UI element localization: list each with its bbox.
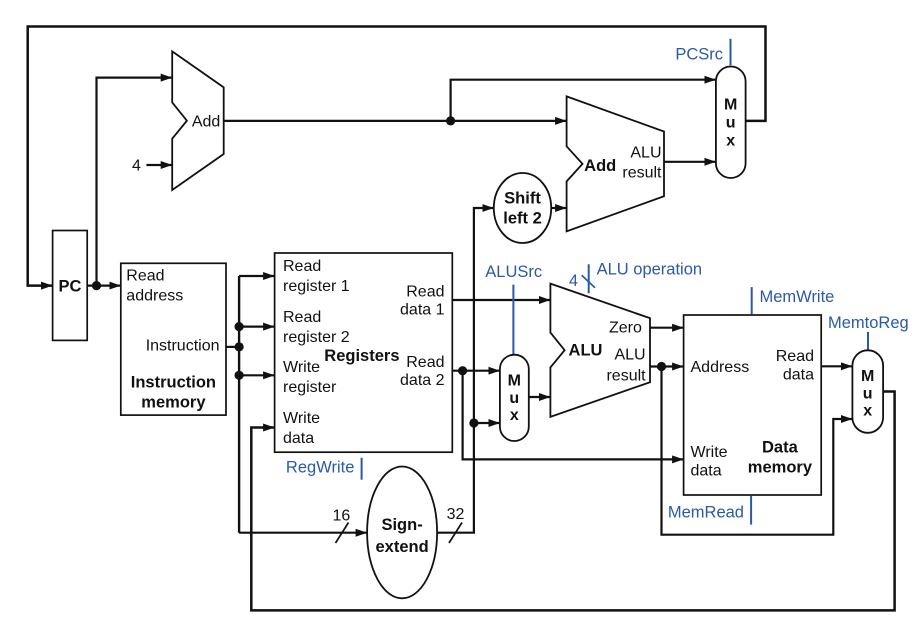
svg-text:x: x [510,407,519,424]
wire: ALU result branch under data memory to MemtoReg mux bottom input [662,367,852,535]
wire: Read data 1 to ALU top input [452,299,550,301]
control line PCSrc [730,39,732,66]
svg-text:MemtoReg: MemtoReg [828,314,909,332]
register PC [53,231,88,341]
wire: ALU Zero output [650,327,683,329]
svg-text:Write: Write [283,410,320,427]
junction dot on Add output [446,116,455,125]
junction dot instruction bus branch write register [235,371,244,380]
wire: branch up from Add output to PCSrc mux top input [451,80,716,121]
ALU U1 [550,284,650,417]
svg-text:Read: Read [406,354,444,371]
svg-text:Sign-: Sign- [381,516,422,534]
junction dot instruction bus at instruction output [235,342,244,351]
wire: Read data 2 to ALUSrc mux top input [452,370,499,372]
svg-text:data 1: data 1 [400,302,445,319]
svg-text:Read: Read [126,267,164,284]
junction dot ALU result branch [657,362,666,371]
svg-text:data: data [283,430,314,447]
wire: Sign-extend output right then up to Shift left 2 [437,208,493,533]
mux ALUSrc [500,355,529,441]
svg-text:16: 16 [333,508,351,525]
svg-text:M: M [861,368,874,385]
junction dot read data 2 branch [458,366,467,375]
svg-text:MemRead: MemRead [668,504,744,522]
junction dot sign-extend branch to ALUSrc mux [469,418,478,427]
control line ALUSrc [512,285,514,354]
wire: instruction bus to Write register [239,374,274,376]
svg-text:x: x [863,403,872,420]
svg-text:memory: memory [748,459,813,477]
svg-text:ALU: ALU [630,145,661,162]
svg-text:result: result [622,165,662,182]
svg-text:register: register [283,379,337,396]
adder Add (PC+4) [172,51,224,190]
svg-text:PC: PC [58,278,81,296]
svg-text:Data: Data [762,439,799,457]
mux PCSrc [716,67,746,179]
control line MemRead [750,496,752,525]
svg-text:RegWrite: RegWrite [286,458,354,476]
svg-text:Shift: Shift [504,190,541,208]
svg-text:MemWrite: MemWrite [760,288,835,306]
wire: Data memory Read data to MemtoReg mux top input [821,365,852,367]
svg-text:extend: extend [376,538,429,556]
wire: PC feedback loop from PCSrc mux output over the top to PC input [28,27,766,286]
svg-text:Read: Read [406,284,444,301]
svg-text:address: address [126,288,183,305]
svg-text:register 2: register 2 [283,329,350,346]
wire: MemtoReg mux output return to Registers Write data [251,392,894,611]
sign-extend ellipse [367,467,437,599]
wire: instruction bus to Read register 2 [239,326,274,328]
wire: instruction bus vertical [238,276,240,533]
wire: instruction bus down to Sign-extend input [239,532,367,534]
svg-text:Read: Read [776,348,814,365]
wire: ALUSrc mux output to ALU bottom input [529,396,550,398]
wire: sign-extend branch to ALUSrc mux bottom input [474,422,500,424]
wire: read data 2 branch down to Data memory Write data [463,371,683,460]
data memory box [684,315,822,495]
svg-text:Write: Write [691,444,728,461]
svg-text:Address: Address [691,359,750,376]
svg-text:Zero: Zero [609,320,642,337]
bus width slash on ALU operation [582,275,595,288]
wire: PC output branch up to Add input [97,78,172,286]
svg-text:4: 4 [132,158,141,175]
wire: Add ALU result output to PCSrc mux bottom input [664,161,715,163]
svg-text:u: u [863,386,873,403]
svg-text:data 2: data 2 [400,372,445,389]
shift left 2 ellipse [494,173,551,243]
svg-text:x: x [726,133,735,150]
registers box [275,253,453,452]
svg-text:u: u [726,115,736,132]
svg-text:data: data [783,367,814,384]
svg-text:Write: Write [283,359,320,376]
svg-text:u: u [509,390,519,407]
wire: instruction bus to Read register 1 [239,275,274,277]
svg-text:Instruction: Instruction [146,338,220,355]
bus width slash 16 [336,523,349,544]
svg-text:32: 32 [447,506,465,523]
svg-text:register 1: register 1 [283,278,350,295]
svg-text:Registers: Registers [324,347,399,365]
wire: Instruction output to instruction bus [226,346,239,348]
svg-text:M: M [724,97,737,114]
svg-text:ALU operation: ALU operation [597,261,703,279]
svg-text:Instruction: Instruction [131,373,216,391]
instruction memory box [121,263,226,415]
wire: constant 4 into Add [146,164,171,166]
adder Add ALU result (branch target) [567,96,664,231]
svg-text:ALU: ALU [614,347,645,364]
control line MemWrite [751,287,753,314]
wire: Shift left 2 output to Add ALU result bottom input [551,207,566,209]
svg-text:ALU: ALU [569,341,603,359]
svg-text:data: data [691,463,722,480]
control line MemtoReg [867,332,869,350]
svg-text:memory: memory [141,393,206,411]
svg-text:PCSrc: PCSrc [675,46,723,64]
wire: Add output to Add ALU result top input [224,120,566,122]
wire: PC output to Instruction memory Read address [87,285,120,287]
svg-text:result: result [606,367,646,384]
svg-text:Read: Read [283,309,321,326]
wire: ALU result to Data memory Address [650,365,683,367]
svg-text:left 2: left 2 [503,210,542,228]
svg-text:Add: Add [192,114,220,131]
svg-text:ALUSrc: ALUSrc [485,263,542,281]
mux MemtoReg [852,350,883,433]
svg-text:4: 4 [569,272,578,290]
control line ALU operation [588,264,590,293]
control line RegWrite [361,458,363,480]
junction dot on PC output [92,281,101,290]
svg-text:Read: Read [283,258,321,275]
svg-text:M: M [508,373,521,390]
junction dot instruction bus branch read register 2 [235,322,244,331]
svg-text:Add: Add [584,157,616,175]
bus width slash 32 [449,523,462,544]
